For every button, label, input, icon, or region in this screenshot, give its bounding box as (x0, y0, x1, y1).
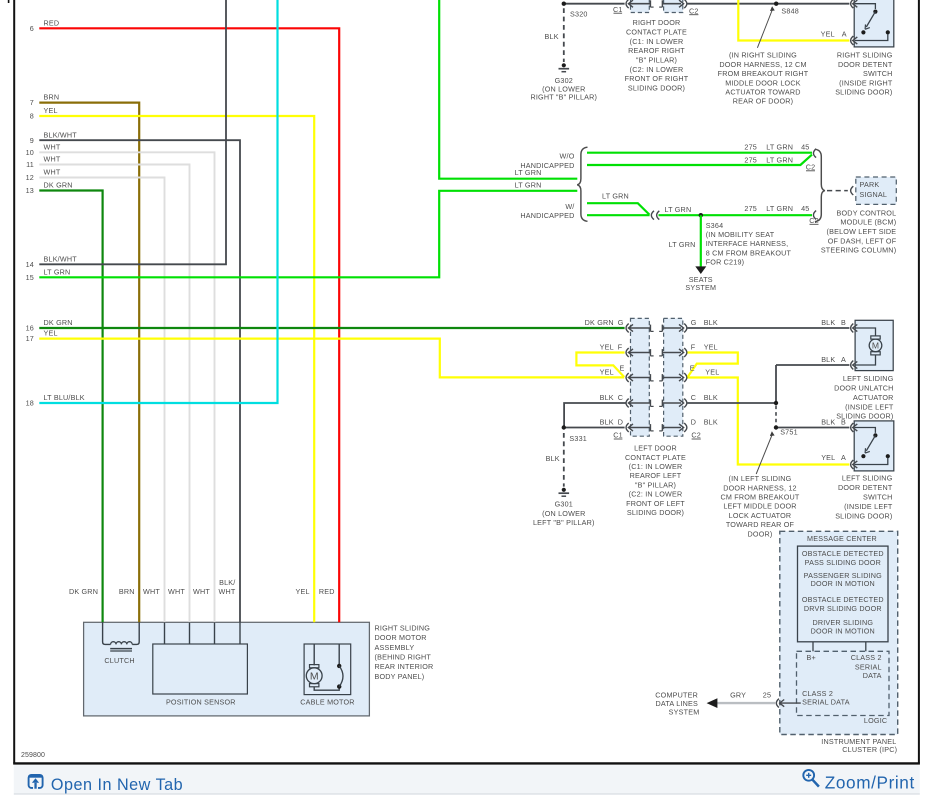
svg-text:WHT: WHT (168, 587, 185, 596)
svg-text:C: C (618, 393, 623, 402)
svg-text:(INSIDE RIGHT: (INSIDE RIGHT (839, 78, 893, 87)
svg-text:DK GRN: DK GRN (44, 181, 73, 190)
svg-text:RIGHT "B" PILLAR): RIGHT "B" PILLAR) (530, 93, 597, 102)
svg-text:S364: S364 (706, 221, 724, 230)
svg-text:SYSTEM: SYSTEM (685, 283, 716, 292)
svg-text:C2: C2 (691, 431, 701, 440)
svg-text:M: M (310, 670, 319, 682)
svg-text:BLK: BLK (546, 454, 560, 463)
svg-text:8: 8 (30, 112, 34, 121)
svg-text:W/: W/ (565, 202, 574, 211)
svg-text:LT GRN: LT GRN (669, 240, 696, 249)
svg-text:CLUSTER (IPC): CLUSTER (IPC) (842, 745, 897, 754)
svg-text:WHT: WHT (193, 587, 210, 596)
svg-text:S751: S751 (780, 428, 798, 437)
svg-text:LT GRN: LT GRN (515, 168, 542, 177)
svg-text:WHT: WHT (44, 155, 61, 164)
svg-text:LT GRN: LT GRN (515, 181, 542, 190)
svg-text:10: 10 (26, 148, 34, 157)
svg-text:17: 17 (26, 334, 34, 343)
svg-text:B: B (841, 318, 846, 327)
svg-text:ACTUATOR: ACTUATOR (853, 393, 893, 402)
svg-text:A: A (841, 355, 846, 364)
svg-text:CONTACT PLATE: CONTACT PLATE (625, 453, 686, 462)
svg-text:COMPUTER: COMPUTER (655, 690, 698, 699)
svg-text:LT BLU/BLK: LT BLU/BLK (44, 393, 85, 402)
svg-text:DRVR SLIDING DOOR: DRVR SLIDING DOOR (804, 604, 882, 613)
svg-text:DOOR UNLATCH: DOOR UNLATCH (834, 384, 893, 393)
svg-text:"B" PILLAR): "B" PILLAR) (635, 480, 676, 489)
svg-text:Open In New Tab: Open In New Tab (51, 776, 183, 794)
svg-text:LT GRN: LT GRN (766, 155, 793, 164)
svg-text:RED: RED (319, 587, 335, 596)
svg-text:G301: G301 (555, 500, 573, 509)
svg-text:RIGHT SLIDING: RIGHT SLIDING (375, 623, 431, 632)
svg-text:BRN: BRN (119, 587, 135, 596)
svg-text:W/O: W/O (560, 152, 575, 161)
svg-text:DOOR HARNESS, 12: DOOR HARNESS, 12 (723, 483, 797, 492)
svg-text:STEERING COLUMN): STEERING COLUMN) (821, 246, 896, 255)
svg-text:WHT: WHT (44, 168, 61, 177)
svg-text:SWITCH: SWITCH (863, 493, 893, 502)
svg-text:REAR OF DOOR): REAR OF DOOR) (733, 97, 794, 106)
svg-text:(C1: IN LOWER: (C1: IN LOWER (630, 37, 684, 46)
svg-text:(INSIDE LEFT: (INSIDE LEFT (844, 502, 893, 511)
svg-text:YEL: YEL (704, 343, 718, 352)
svg-text:CLASS 2: CLASS 2 (851, 653, 882, 662)
svg-text:BODY PANEL): BODY PANEL) (375, 672, 425, 681)
svg-text:(INSIDE LEFT: (INSIDE LEFT (845, 402, 894, 411)
svg-text:CLUTCH: CLUTCH (104, 656, 134, 665)
svg-text:CLASS 2: CLASS 2 (802, 689, 833, 698)
svg-text:BLK: BLK (704, 318, 718, 327)
svg-text:WHT: WHT (219, 587, 236, 596)
svg-text:REAROF RIGHT: REAROF RIGHT (628, 46, 685, 55)
svg-text:LEFT SLIDING: LEFT SLIDING (842, 474, 893, 483)
svg-text:C: C (691, 393, 696, 402)
svg-text:TOWARD REAR OF: TOWARD REAR OF (726, 520, 795, 529)
svg-text:DOOR IN MOTION: DOOR IN MOTION (811, 579, 875, 588)
svg-text:BRN: BRN (44, 93, 60, 102)
svg-text:E: E (690, 363, 695, 372)
svg-text:F: F (618, 343, 623, 352)
svg-text:CM FROM BREAKOUT: CM FROM BREAKOUT (720, 493, 799, 502)
svg-text:FOR C219): FOR C219) (706, 257, 745, 266)
svg-text:REAR INTERIOR: REAR INTERIOR (375, 662, 434, 671)
svg-text:DOOR MOTOR: DOOR MOTOR (375, 633, 427, 642)
svg-text:BLK: BLK (704, 418, 718, 427)
svg-text:8 CM FROM BREAKOUT: 8 CM FROM BREAKOUT (706, 248, 792, 257)
svg-text:DOOR IN MOTION: DOOR IN MOTION (811, 626, 875, 635)
svg-text:C1: C1 (613, 5, 623, 14)
svg-text:DK GRN: DK GRN (69, 587, 98, 596)
svg-text:S331: S331 (569, 434, 587, 443)
svg-text:YEL: YEL (44, 106, 58, 115)
svg-text:(BEHIND RIGHT: (BEHIND RIGHT (375, 653, 432, 662)
svg-text:G: G (618, 318, 624, 327)
svg-text:11: 11 (26, 160, 34, 169)
svg-text:REAROF LEFT: REAROF LEFT (630, 471, 682, 480)
svg-text:7: 7 (30, 98, 34, 107)
svg-text:GRY: GRY (730, 691, 746, 700)
svg-text:LEFT DOOR: LEFT DOOR (634, 444, 677, 453)
svg-text:BLK: BLK (600, 393, 614, 402)
svg-text:OBSTACLE DETECTED: OBSTACLE DETECTED (802, 549, 884, 558)
svg-text:SIGNAL: SIGNAL (860, 190, 888, 199)
svg-text:PARK: PARK (860, 180, 880, 189)
svg-text:HANDICAPPED: HANDICAPPED (520, 211, 574, 220)
svg-text:18: 18 (26, 399, 34, 408)
svg-text:(C2: IN LOWER: (C2: IN LOWER (630, 65, 684, 74)
svg-text:INTERFACE HARNESS,: INTERFACE HARNESS, (706, 239, 789, 248)
svg-text:DOOR): DOOR) (748, 529, 773, 538)
svg-text:ASSEMBLY: ASSEMBLY (375, 643, 415, 652)
svg-text:45: 45 (801, 204, 809, 213)
svg-text:BODY CONTROL: BODY CONTROL (837, 208, 897, 217)
svg-text:PASS SLIDING DOOR: PASS SLIDING DOOR (805, 558, 881, 567)
svg-text:S848: S848 (781, 7, 799, 16)
svg-text:Zoom/Print: Zoom/Print (825, 772, 915, 792)
svg-text:C1: C1 (613, 431, 623, 440)
svg-text:275: 275 (744, 204, 757, 213)
svg-text:DOOR DETENT: DOOR DETENT (838, 60, 893, 69)
svg-text:LT GRN: LT GRN (766, 143, 793, 152)
svg-text:CONTACT PLATE: CONTACT PLATE (626, 27, 687, 36)
svg-text:BLK: BLK (704, 393, 718, 402)
svg-text:MESSAGE CENTER: MESSAGE CENTER (807, 534, 877, 543)
svg-text:ACTUATOR TOWARD: ACTUATOR TOWARD (725, 88, 800, 97)
svg-text:SLIDING DOOR): SLIDING DOOR) (835, 512, 892, 521)
svg-text:16: 16 (26, 324, 34, 333)
svg-text:LOCK ACTUATOR: LOCK ACTUATOR (729, 511, 792, 520)
svg-text:BLK: BLK (821, 355, 835, 364)
svg-text:YEL: YEL (296, 587, 310, 596)
svg-text:BLK: BLK (821, 418, 835, 427)
svg-text:DATA: DATA (863, 671, 882, 680)
svg-text:LEFT MIDDLE DOOR: LEFT MIDDLE DOOR (723, 502, 796, 511)
svg-text:(IN RIGHT SLIDING: (IN RIGHT SLIDING (729, 51, 797, 60)
svg-text:YEL: YEL (705, 367, 719, 376)
svg-text:LEFT "B" PILLAR): LEFT "B" PILLAR) (533, 518, 595, 527)
svg-text:BLK: BLK (821, 318, 835, 327)
svg-text:(ON LOWER: (ON LOWER (542, 509, 585, 518)
svg-text:LT GRN: LT GRN (664, 205, 691, 214)
svg-text:13: 13 (26, 186, 34, 195)
svg-text:E: E (620, 363, 625, 372)
svg-text:(BELOW LEFT SIDE: (BELOW LEFT SIDE (827, 227, 897, 236)
svg-text:12: 12 (26, 173, 34, 182)
svg-text:B: B (841, 418, 846, 427)
svg-text:"B" PILLAR): "B" PILLAR) (636, 55, 677, 64)
svg-text:DOOR DETENT: DOOR DETENT (838, 483, 893, 492)
svg-text:275: 275 (744, 155, 757, 164)
svg-text:SLIDING DOOR): SLIDING DOOR) (627, 508, 684, 517)
svg-text:LOGIC: LOGIC (864, 716, 887, 725)
svg-text:6: 6 (30, 24, 34, 33)
svg-text:DK GRN: DK GRN (585, 318, 614, 327)
svg-text:15: 15 (26, 273, 34, 282)
svg-text:C2: C2 (806, 162, 816, 171)
svg-text:RIGHT SLIDING: RIGHT SLIDING (837, 51, 893, 60)
svg-text:(C1: IN LOWER: (C1: IN LOWER (629, 462, 683, 471)
svg-text:YEL: YEL (600, 343, 614, 352)
svg-text:FRONT OF LEFT: FRONT OF LEFT (626, 499, 685, 508)
svg-text:LT GRN: LT GRN (602, 191, 629, 200)
svg-text:G: G (691, 318, 697, 327)
svg-text:MODULE (BCM): MODULE (BCM) (840, 218, 896, 227)
svg-text:BLK: BLK (600, 418, 614, 427)
svg-text:OF DASH, LEFT OF: OF DASH, LEFT OF (828, 236, 897, 245)
svg-text:POSITION SENSOR: POSITION SENSOR (166, 697, 236, 706)
svg-text:259800: 259800 (21, 752, 45, 759)
svg-text:9: 9 (30, 136, 34, 145)
svg-text:C2: C2 (689, 6, 699, 15)
svg-text:D: D (691, 418, 696, 427)
svg-text:SERIAL DATA: SERIAL DATA (802, 698, 850, 707)
svg-text:RIGHT DOOR: RIGHT DOOR (633, 18, 681, 27)
svg-text:SLIDING DOOR): SLIDING DOOR) (835, 88, 892, 97)
svg-text:(IN MOBILITY SEAT: (IN MOBILITY SEAT (706, 230, 775, 239)
svg-text:DOOR HARNESS, 12 CM: DOOR HARNESS, 12 CM (719, 60, 806, 69)
svg-text:A: A (841, 453, 846, 462)
svg-text:C2: C2 (809, 216, 819, 225)
svg-text:YEL: YEL (600, 367, 614, 376)
svg-text:LT GRN: LT GRN (44, 267, 71, 276)
svg-text:WHT: WHT (44, 142, 61, 151)
svg-text:(IN LEFT SLIDING: (IN LEFT SLIDING (729, 474, 792, 483)
svg-text:D: D (618, 418, 623, 427)
svg-text:B+: B+ (807, 653, 816, 662)
svg-text:YEL: YEL (44, 329, 58, 338)
svg-text:25: 25 (763, 691, 771, 700)
svg-text:DK GRN: DK GRN (44, 318, 73, 327)
svg-text:YEL: YEL (821, 30, 835, 39)
svg-text:WHT: WHT (143, 587, 160, 596)
svg-text:BLK/WHT: BLK/WHT (44, 130, 78, 139)
svg-text:LT GRN: LT GRN (766, 204, 793, 213)
svg-text:(C2: IN LOWER: (C2: IN LOWER (629, 490, 683, 499)
svg-text:BLK/WHT: BLK/WHT (44, 254, 78, 263)
svg-text:F: F (691, 343, 696, 352)
svg-text:SLIDING DOOR): SLIDING DOOR) (628, 83, 685, 92)
svg-text:FRONT OF RIGHT: FRONT OF RIGHT (625, 74, 689, 83)
svg-text:45: 45 (801, 143, 809, 152)
svg-text:A: A (842, 30, 847, 39)
svg-text:BLK: BLK (545, 32, 559, 41)
svg-text:FROM BREAKOUT RIGHT: FROM BREAKOUT RIGHT (718, 69, 809, 78)
svg-text:275: 275 (744, 143, 757, 152)
svg-text:S320: S320 (570, 9, 588, 18)
svg-text:YEL: YEL (821, 453, 835, 462)
svg-text:14: 14 (26, 260, 34, 269)
svg-text:RED: RED (44, 18, 60, 27)
svg-text:LEFT SLIDING: LEFT SLIDING (843, 374, 894, 383)
svg-text:M: M (872, 340, 879, 350)
svg-text:CABLE MOTOR: CABLE MOTOR (300, 697, 354, 706)
svg-text:SYSTEM: SYSTEM (669, 707, 700, 716)
svg-text:MIDDLE DOOR LOCK: MIDDLE DOOR LOCK (725, 78, 801, 87)
svg-text:BLK/: BLK/ (219, 578, 235, 587)
svg-text:SWITCH: SWITCH (863, 69, 893, 78)
